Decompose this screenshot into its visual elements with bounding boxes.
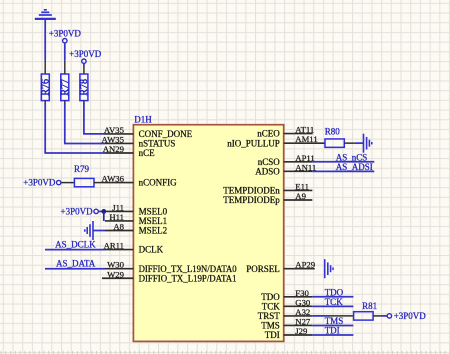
- svg-text:J29: J29: [295, 326, 307, 336]
- pin F30: [284, 296, 313, 298]
- junction node J11: [101, 209, 106, 214]
- svg-text:TEMPDIODEp: TEMPDIODEp: [223, 195, 280, 205]
- svg-text:G30: G30: [295, 297, 311, 307]
- svg-text:AW36: AW36: [102, 174, 125, 184]
- svg-text:nCEO: nCEO: [257, 129, 280, 139]
- svg-text:TCK: TCK: [325, 297, 344, 307]
- svg-text:W29: W29: [107, 269, 124, 279]
- wire R81 to power: [373, 315, 381, 317]
- pin W30: [105, 268, 133, 270]
- pin A32: [284, 315, 313, 317]
- svg-text:TCK: TCK: [262, 301, 281, 311]
- svg-text:+3P0VD: +3P0VD: [69, 49, 102, 59]
- svg-text:AM11: AM11: [295, 134, 317, 144]
- pin AP11: [284, 161, 313, 163]
- resistor R76: [41, 74, 49, 101]
- pin AW35: [105, 142, 133, 144]
- wire TMS: [312, 324, 353, 326]
- svg-text:TDO: TDO: [261, 292, 280, 302]
- svg-text:R80: R80: [325, 127, 341, 137]
- svg-text:AW35: AW35: [102, 134, 124, 144]
- pin W29: [102, 277, 133, 279]
- wire R78 down to CONF_DONE row: [83, 101, 85, 105]
- svg-text:A32: A32: [295, 307, 310, 317]
- svg-text:TDI: TDI: [265, 330, 280, 340]
- svg-text:R78: R78: [79, 79, 90, 96]
- pin AW36: [105, 182, 133, 184]
- wire circle to junction: [98, 210, 104, 212]
- pin AM11: [284, 142, 325, 144]
- svg-text:CONF_DONE: CONF_DONE: [139, 129, 193, 139]
- svg-text:ADSO: ADSO: [255, 166, 280, 176]
- svg-text:H11: H11: [109, 212, 124, 222]
- resistor R81: [354, 312, 374, 320]
- wire ground stem to R76: [44, 20, 46, 60]
- left pin names: [139, 129, 237, 283]
- svg-text:TDO: TDO: [325, 287, 344, 297]
- svg-text:MSEL0: MSEL0: [139, 207, 168, 217]
- svg-text:AS_DCLK: AS_DCLK: [55, 239, 96, 249]
- wire R79 to pin AW36: [94, 182, 105, 184]
- pin J29: [284, 334, 313, 336]
- svg-text:DCLK: DCLK: [139, 245, 164, 255]
- pin G30: [284, 305, 313, 307]
- bottom edge ruler ticks: [1, 351, 450, 354]
- ground (earth) symbol PORSEL, pointing right: [325, 259, 333, 278]
- svg-text:TMS: TMS: [325, 316, 344, 326]
- svg-text:AT11: AT11: [295, 125, 314, 135]
- svg-text:AR11: AR11: [104, 241, 124, 251]
- svg-text:R77: R77: [60, 79, 71, 96]
- wire TDI: [312, 334, 353, 336]
- svg-text:A9: A9: [295, 191, 306, 201]
- svg-text:A8: A8: [113, 222, 124, 232]
- wire R77 down to nSTATUS row: [64, 101, 66, 105]
- wire to R78: [83, 63, 85, 66]
- wire junction down to MSEL1: [103, 211, 105, 221]
- pin E11: [284, 189, 313, 191]
- pin AR11: [105, 249, 133, 251]
- wire R76 down to nCE row: [44, 101, 46, 105]
- pin AV35: [105, 133, 133, 135]
- svg-text:D1H: D1H: [134, 115, 152, 125]
- wire AS_DCLK to DCLK pin: [45, 249, 105, 251]
- pin AN29: [105, 152, 133, 154]
- pin AP29: [284, 268, 315, 270]
- svg-text:AS_ADSI: AS_ADSI: [336, 162, 373, 172]
- pin AT11: [284, 133, 313, 135]
- wire circle to R79: [61, 182, 75, 184]
- svg-text:nSTATUS: nSTATUS: [139, 139, 176, 149]
- svg-text:DIFFIO_TX_L19N/DATA0: DIFFIO_TX_L19N/DATA0: [139, 264, 237, 274]
- svg-text:TDI: TDI: [325, 326, 340, 336]
- right pin designators: [295, 125, 317, 336]
- svg-text:+3P0VD: +3P0VD: [23, 178, 56, 188]
- pin J11: [105, 210, 133, 212]
- svg-text:AV35: AV35: [104, 125, 124, 135]
- svg-text:nIO_PULLUP: nIO_PULLUP: [227, 138, 280, 148]
- resistor R78: [80, 74, 88, 101]
- wire R80 to ground: [344, 142, 354, 144]
- left pin designators: [102, 125, 125, 279]
- ground (earth) symbol R80, pointing right: [364, 134, 372, 153]
- wire TCK: [312, 305, 353, 307]
- svg-text:DIFFIO_TX_L19P/DATA1: DIFFIO_TX_L19P/DATA1: [139, 273, 237, 283]
- right pin names: [223, 129, 280, 340]
- resistor R79: [74, 178, 94, 186]
- right pins: [284, 134, 325, 335]
- pin AN11: [284, 170, 313, 172]
- pin N27: [284, 324, 313, 326]
- svg-text:+3P0VD: +3P0VD: [394, 311, 427, 321]
- svg-text:nCONFIG: nCONFIG: [139, 178, 178, 188]
- svg-text:MSEL2: MSEL2: [139, 226, 168, 236]
- svg-text:W30: W30: [107, 260, 125, 270]
- svg-text:E11: E11: [295, 181, 309, 191]
- svg-text:R76: R76: [40, 79, 51, 96]
- svg-text:AS_DATA: AS_DATA: [56, 259, 96, 269]
- svg-text:TMS: TMS: [261, 321, 280, 331]
- ground (earth) symbol MSEL2, pointing left: [85, 221, 93, 240]
- pin A9: [284, 199, 313, 201]
- svg-text:R81: R81: [362, 301, 377, 311]
- svg-text:TEMPDIODEn: TEMPDIODEn: [223, 186, 280, 196]
- svg-text:TRST: TRST: [258, 311, 281, 321]
- wire AS_ADSI: [312, 170, 374, 172]
- wire AN29 horizontal: [44, 152, 105, 154]
- svg-text:N27: N27: [295, 316, 311, 326]
- wire AV35 horizontal: [83, 133, 105, 135]
- svg-text:+3P0VD: +3P0VD: [49, 28, 82, 38]
- wire AS_DATA to DATA0 pin: [45, 268, 105, 270]
- svg-text:R79: R79: [74, 164, 90, 174]
- resistor R80: [325, 139, 344, 147]
- svg-text:AP29: AP29: [295, 260, 315, 270]
- svg-text:+3P0VD: +3P0VD: [61, 206, 94, 216]
- svg-text:nCE: nCE: [139, 148, 156, 158]
- wire TDO: [312, 296, 353, 298]
- wire AS_nCS: [312, 161, 374, 163]
- svg-text:AS_nCS: AS_nCS: [336, 152, 368, 162]
- wire TRST to R81: [312, 315, 330, 317]
- resistor R77: [61, 74, 69, 101]
- ground (earth) symbol top-left: [35, 10, 56, 19]
- wire AW35 horizontal: [64, 142, 105, 144]
- pin A8: [105, 230, 133, 232]
- svg-text:J11: J11: [112, 202, 124, 212]
- svg-text:AP11: AP11: [295, 153, 314, 163]
- power port +3P0VD (R81): [387, 314, 391, 318]
- svg-text:nCSO: nCSO: [258, 157, 281, 167]
- pin H11: [105, 220, 133, 222]
- svg-text:PORSEL: PORSEL: [246, 264, 280, 274]
- svg-text:AN29: AN29: [103, 144, 124, 154]
- part body: [133, 125, 283, 342]
- svg-text:F30: F30: [295, 288, 309, 298]
- wire to R77: [64, 43, 66, 61]
- svg-text:MSEL1: MSEL1: [139, 216, 168, 226]
- wire A8 to ground: [93, 230, 105, 232]
- left pins: [102, 134, 133, 278]
